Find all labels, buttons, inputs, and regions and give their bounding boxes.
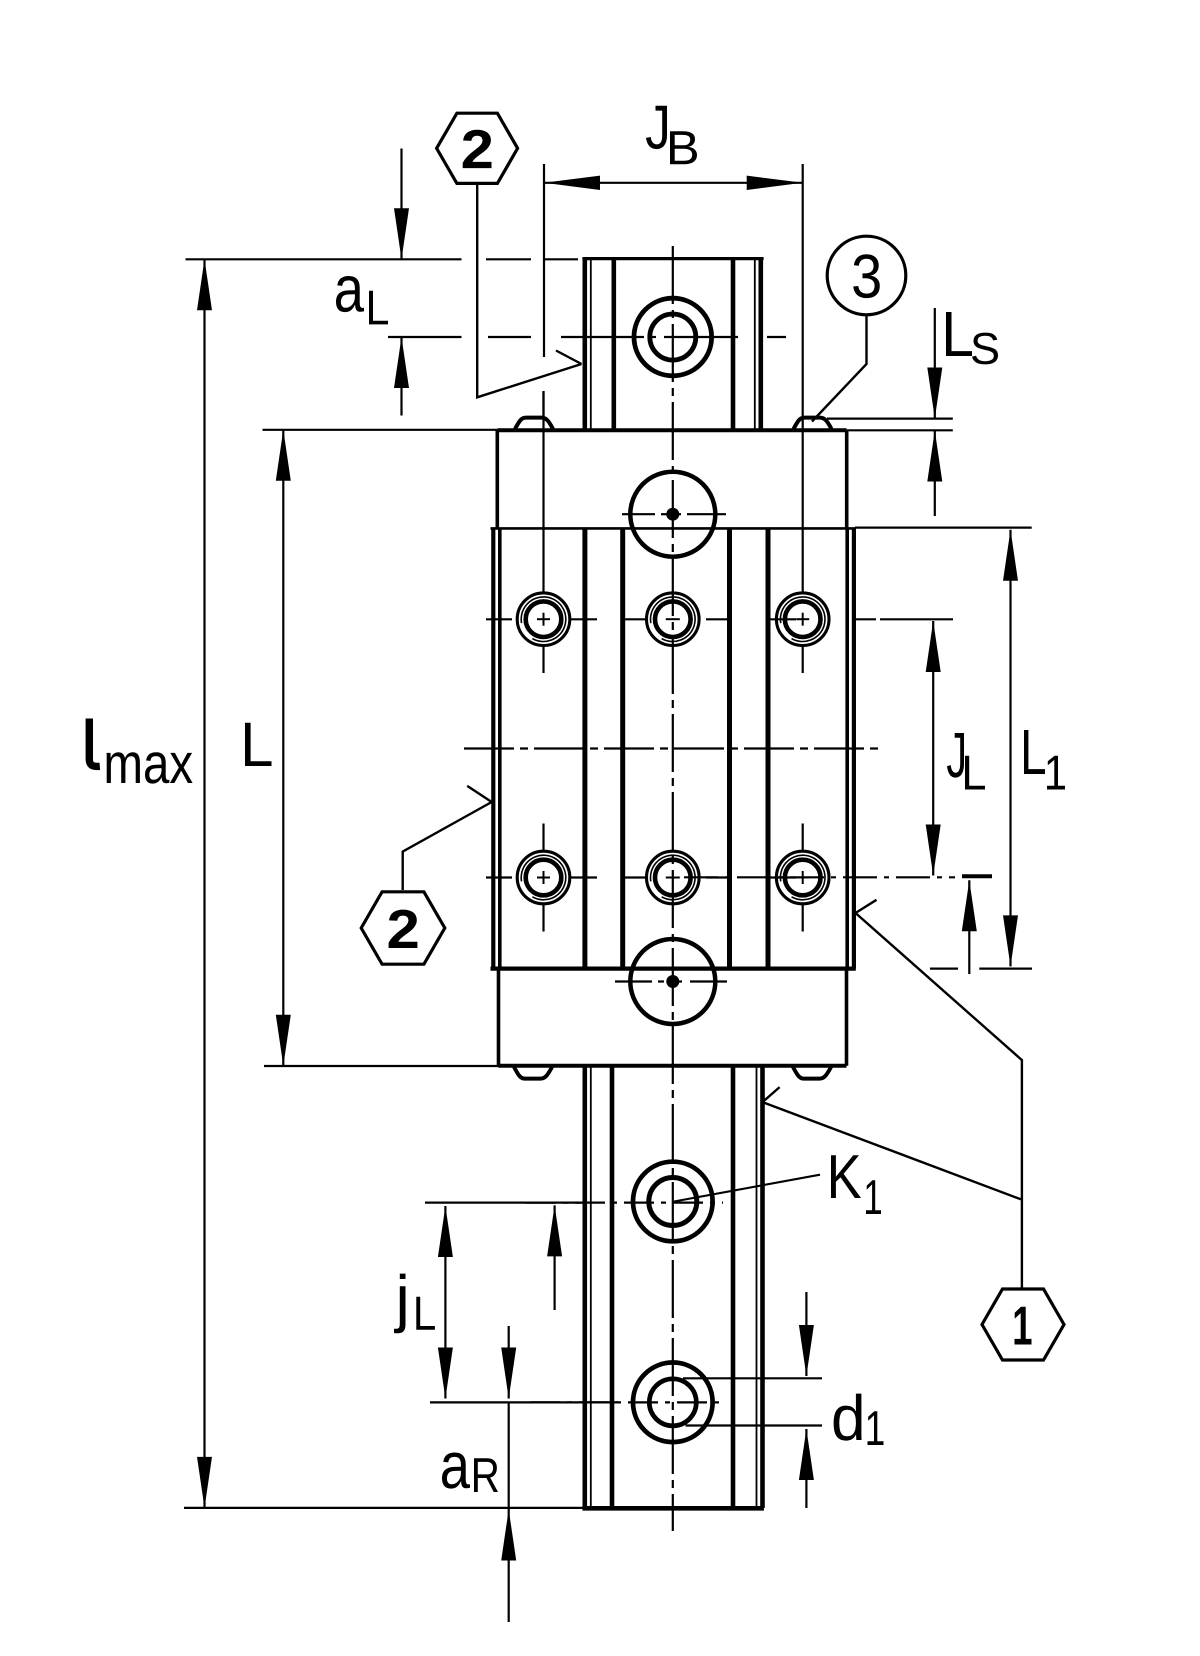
- l_max arrows: [197, 259, 212, 310]
- hexagon 1 leader to carriage: [856, 913, 1022, 1289]
- hole row line bottom: [486, 876, 955, 878]
- screw hole bottom-left: [517, 851, 570, 904]
- dimension L_1: [1009, 530, 1011, 967]
- dimension L: [282, 430, 284, 1066]
- label K_1 subscript: [866, 1180, 881, 1214]
- label J_L subscript: [965, 756, 985, 790]
- lube port top crosshair: [622, 513, 726, 515]
- dimension j_L: [444, 1206, 446, 1399]
- hole row line top: [486, 618, 953, 620]
- label J_L main: [947, 733, 964, 778]
- carriage body: [491, 528, 856, 968]
- balloon digit 2 bottom: [389, 910, 418, 948]
- label a_R main: [442, 1453, 470, 1489]
- L_1 arrows: [1003, 530, 1018, 581]
- screw hole top-left: [517, 593, 570, 646]
- dimension J_L: [932, 621, 934, 876]
- bump bottom-right: [793, 1067, 831, 1079]
- rail hole top crosshair horizontal: [561, 336, 786, 338]
- carriage horizontal centerline: [464, 747, 880, 749]
- lube port bottom crosshair: [615, 980, 727, 982]
- extra arrow: [547, 1205, 562, 1256]
- label d_1 main: [834, 1394, 862, 1441]
- K1 leader: [674, 1175, 820, 1202]
- label L_1 main: [1024, 730, 1045, 774]
- balloon digit 3: [853, 254, 880, 298]
- balloon digit 1: [1015, 1307, 1032, 1345]
- label a_L subscript: [369, 291, 388, 325]
- dimension a_R: [508, 1326, 510, 1399]
- d1 hole crosshair: [430, 1401, 722, 1403]
- small dimension arrow: [962, 880, 977, 931]
- screw hole column centerlines left: [542, 391, 544, 932]
- L arrows: [276, 430, 291, 481]
- hexagon 2 top balloon: [437, 113, 518, 183]
- j_L arrows: [438, 1206, 453, 1257]
- hexagon 1 balloon: [982, 1289, 1064, 1360]
- label L: [245, 723, 272, 766]
- screw holes: [517, 593, 829, 904]
- dimension d_1: [805, 1292, 807, 1376]
- bump top-left: [515, 418, 553, 429]
- label K_1 main: [831, 1155, 861, 1198]
- rail hole K1: [633, 1162, 713, 1242]
- screw hole bottom-center: [647, 851, 700, 904]
- circle 3 balloon: [827, 236, 906, 315]
- rail hole top: [634, 298, 712, 376]
- label L_S main: [946, 312, 972, 356]
- hexagon 2 bottom balloon: [361, 892, 445, 964]
- bump bottom-left: [514, 1067, 552, 1079]
- dimension J_B: [544, 182, 803, 184]
- tick at right of bottom row: [962, 874, 992, 878]
- carriage bottom end plate: [499, 969, 847, 1079]
- a_R arrows: [501, 1348, 516, 1399]
- label a_L main: [336, 276, 364, 312]
- screw hole column centerlines right: [802, 164, 804, 932]
- rail bottom section: [582, 1066, 764, 1508]
- label l_max main: [89, 719, 100, 767]
- screw hole top-center: [647, 593, 700, 646]
- label L_1 subscript: [1047, 756, 1065, 790]
- L_S arrows: [927, 368, 942, 419]
- label j_L subscript: [416, 1297, 435, 1330]
- label a_R subscript: [474, 1458, 498, 1492]
- J_L arrows: [926, 621, 941, 672]
- hexagon 1 leader to rail: [763, 1102, 1021, 1199]
- screw hole top-right: [776, 593, 829, 646]
- circle 3 leader: [812, 315, 867, 422]
- label J_B main: [646, 106, 667, 149]
- bump top-right: [794, 418, 832, 429]
- lube port bottom: [630, 939, 715, 1024]
- carriage top end plate: [497, 418, 846, 528]
- J_B arrows: [544, 176, 600, 190]
- dashes right of a_L top line: [486, 258, 531, 260]
- hexagon 2 top leader: [477, 185, 581, 397]
- a_L arrows: [394, 208, 409, 259]
- rail hole d1: [633, 1363, 713, 1443]
- small dimension arrow tail: [968, 880, 970, 974]
- hexagon 2 bottom leader: [403, 802, 492, 890]
- rail top section: [582, 259, 763, 429]
- balloon digit 2 top: [463, 130, 492, 168]
- lube port top: [630, 472, 715, 557]
- extra arrow below K1 row line: [553, 1205, 555, 1310]
- dimension l_max: [203, 259, 205, 1508]
- label L_S subscript: [972, 333, 998, 365]
- screw hole bottom-right: [776, 851, 829, 904]
- d_1 arrows: [799, 1325, 814, 1376]
- label j_L main: [394, 1274, 406, 1334]
- label d_1 subscript: [868, 1411, 884, 1445]
- dimension L_S: [934, 308, 936, 419]
- label J_B subscript: [670, 131, 697, 164]
- dimension a_L: [400, 149, 402, 260]
- rail vertical centerline: [672, 246, 674, 1531]
- K1 hole crosshair: [425, 1201, 723, 1203]
- label l_max subscript: [107, 752, 193, 783]
